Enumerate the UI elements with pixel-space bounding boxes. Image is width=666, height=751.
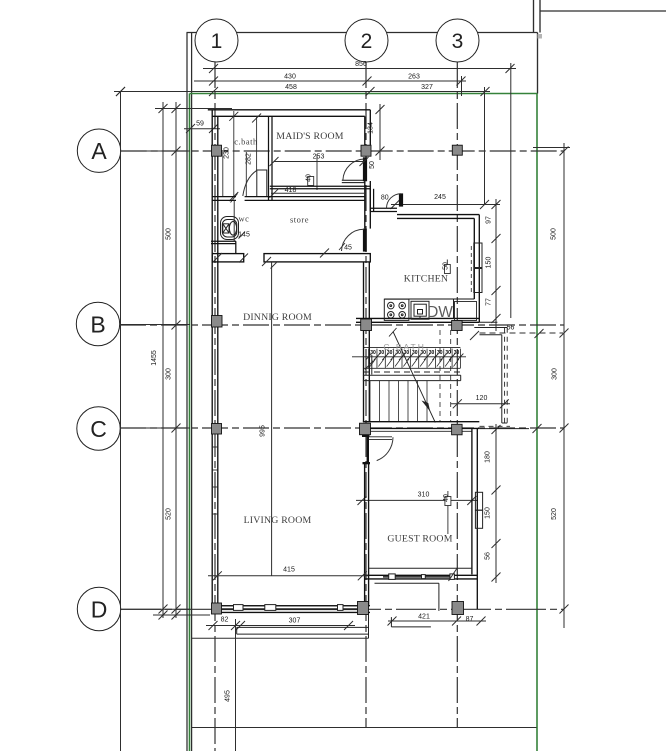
grid line 3 vertical bbox=[456, 62, 458, 728]
kitchen south wall bbox=[356, 318, 479, 322]
tick at green C bbox=[533, 424, 542, 433]
living west wall window ticks bbox=[212, 447, 218, 514]
toilet fixture bbox=[221, 217, 239, 240]
stair arrow head bbox=[422, 401, 431, 412]
svg-text:310: 310 bbox=[418, 492, 430, 499]
stove bbox=[384, 299, 409, 320]
right inner chain 97/150/77 bbox=[492, 199, 501, 331]
svg-text:495: 495 bbox=[225, 690, 232, 702]
extension line from 485 down to kitchen bbox=[484, 87, 486, 205]
svg-text:307: 307 bbox=[289, 618, 301, 625]
svg-text:LIVING ROOM: LIVING ROOM bbox=[244, 515, 312, 526]
right outer chain 500/300/520 bbox=[533, 143, 570, 628]
kitchen east window bbox=[474, 243, 482, 293]
grid line B horizontal bbox=[120, 324, 564, 326]
svg-text:MAID'S ROOM: MAID'S ROOM bbox=[276, 131, 343, 142]
grid bubble D bbox=[77, 587, 120, 630]
store door tick bbox=[339, 243, 345, 250]
maid's room door arc bbox=[343, 159, 365, 180]
extension line from 510 down bbox=[510, 63, 512, 318]
svg-text:458: 458 bbox=[285, 84, 297, 91]
guest south window notches bbox=[389, 574, 455, 580]
svg-text:97: 97 bbox=[486, 216, 493, 224]
svg-text:40: 40 bbox=[306, 174, 313, 182]
living south window band bbox=[222, 606, 357, 609]
guest room right chain 180/150/56 bbox=[492, 424, 501, 583]
svg-text:245: 245 bbox=[434, 194, 446, 201]
kitchen window tag arrow bbox=[446, 260, 448, 265]
column A3 bbox=[452, 145, 462, 155]
guest east window bbox=[475, 492, 482, 528]
svg-text:80: 80 bbox=[381, 194, 389, 201]
kitchen north wall bbox=[397, 215, 479, 219]
extension line from 461 bbox=[461, 76, 463, 96]
maid's room door leaf bbox=[363, 157, 367, 181]
guest door jamb caps bbox=[362, 435, 370, 437]
column B1 bbox=[212, 316, 223, 328]
stair newel line bbox=[371, 355, 373, 375]
property boundary double line west bbox=[187, 33, 192, 751]
dim 230 c.bath bbox=[222, 152, 224, 196]
svg-text:995: 995 bbox=[259, 425, 266, 437]
north exterior wall maid's room bbox=[208, 110, 370, 145]
maid's room east wall upper bbox=[365, 181, 371, 229]
svg-text:77: 77 bbox=[486, 298, 493, 306]
small gray mark below frame bbox=[538, 34, 543, 39]
svg-text:282: 282 bbox=[246, 153, 253, 165]
c.bath door jamb line bbox=[252, 114, 261, 171]
tick on x120 line top bbox=[116, 87, 125, 96]
kitchen east wall bbox=[474, 215, 479, 323]
stair direction line with arrow bbox=[389, 328, 435, 423]
store east wall with door leaf bbox=[363, 229, 367, 252]
top dimension row 3 (458/327) bbox=[114, 87, 490, 96]
svg-text:c.bath: c.bath bbox=[234, 137, 258, 147]
svg-text:263: 263 bbox=[408, 74, 420, 81]
bottom chain terminator line left bbox=[153, 614, 210, 616]
kitchen right counter inner rect bbox=[455, 302, 477, 321]
column A1 bbox=[212, 145, 222, 156]
guest room door arc bbox=[377, 437, 393, 460]
stair lower flight treads bbox=[370, 381, 427, 422]
svg-text:1455: 1455 bbox=[151, 350, 158, 366]
svg-text:wc: wc bbox=[239, 214, 250, 224]
green plot rectangle bbox=[190, 94, 538, 751]
svg-text:300: 300 bbox=[166, 368, 173, 380]
oven bbox=[411, 301, 429, 319]
grid bubble 1 bbox=[195, 19, 238, 62]
dim 310 guest bbox=[356, 496, 478, 505]
column B3 bbox=[452, 321, 463, 331]
stair upper flight hatch marks bbox=[370, 359, 459, 367]
svg-text:45: 45 bbox=[344, 245, 352, 252]
bottom site line y727 bbox=[192, 727, 537, 729]
svg-text:120: 120 bbox=[476, 395, 488, 402]
dim 245 kitchen top bbox=[391, 200, 501, 209]
top chain terminator line left bbox=[155, 108, 232, 110]
svg-text:82: 82 bbox=[221, 617, 229, 624]
svg-text:421: 421 bbox=[418, 614, 430, 621]
wall between c.bath and maid's room bbox=[269, 116, 273, 200]
svg-text:180: 180 bbox=[485, 451, 492, 463]
grid bubble B bbox=[76, 302, 119, 345]
wc door tick bbox=[239, 232, 246, 239]
svg-text:150: 150 bbox=[485, 507, 492, 519]
property boundary north line bbox=[187, 32, 538, 34]
left dimension chain segments 500/300/520 bbox=[159, 102, 181, 620]
dim 282 c.bath bbox=[245, 152, 247, 196]
hall east strip dashed bbox=[480, 328, 511, 427]
maid's room south wall bbox=[270, 186, 371, 189]
svg-text:50: 50 bbox=[369, 161, 376, 169]
kitchen door leaf 80 bbox=[399, 193, 403, 206]
dim 59 top left bbox=[184, 124, 220, 133]
column C1 bbox=[212, 424, 222, 435]
store door arc bbox=[342, 229, 365, 251]
top dimension row 2 (430/263) bbox=[194, 77, 466, 86]
c.bath door tick bbox=[231, 194, 238, 203]
c.bath door arc bbox=[243, 171, 257, 196]
guest room door header lines bbox=[369, 437, 393, 440]
bottom dim 82/307 bbox=[206, 621, 355, 630]
long vertical reference line at x=120 bbox=[120, 92, 122, 751]
title frame corner top-right bbox=[534, 0, 666, 94]
svg-text:134: 134 bbox=[368, 122, 375, 134]
dim 253 maid bbox=[270, 157, 369, 166]
svg-text:30: 30 bbox=[429, 350, 435, 356]
svg-text:415: 415 bbox=[283, 567, 295, 574]
svg-text:2: 2 bbox=[361, 30, 373, 53]
porch rectangle below living bbox=[237, 612, 369, 638]
grid line 1 vertical bbox=[214, 62, 216, 751]
svg-text:A: A bbox=[91, 138, 107, 164]
svg-text:150: 150 bbox=[486, 257, 493, 269]
grid A stub from bubble bbox=[121, 150, 190, 152]
grid line D horizontal bbox=[121, 608, 564, 610]
stair tread labels 30 row bbox=[370, 350, 459, 356]
svg-text:3: 3 bbox=[452, 30, 464, 53]
guest south window band bbox=[369, 568, 472, 577]
svg-text:KITCHEN: KITCHEN bbox=[404, 274, 448, 285]
bottom site line y638 bbox=[192, 637, 369, 639]
hall east strip lines bbox=[474, 328, 507, 424]
svg-text:430: 430 bbox=[284, 74, 296, 81]
svg-text:30: 30 bbox=[454, 350, 460, 356]
counter divider right of DW bbox=[453, 299, 455, 318]
dim 120 hall bbox=[451, 399, 510, 408]
svg-text:59: 59 bbox=[196, 121, 204, 128]
maid door sill bbox=[342, 180, 366, 182]
dinning room interior dim line 995 bbox=[271, 262, 273, 576]
svg-text:856: 856 bbox=[355, 61, 367, 68]
svg-text:C.BATH: C.BATH bbox=[383, 342, 426, 352]
west exterior wall bbox=[212, 110, 218, 609]
svg-text:D: D bbox=[91, 597, 108, 623]
svg-text:40: 40 bbox=[443, 494, 450, 502]
stair landing band bbox=[363, 375, 461, 380]
dim 134 vertical near grid2 bbox=[376, 104, 385, 160]
guest room door leaf bbox=[367, 437, 369, 463]
guest room west wall upper stub bbox=[365, 428, 369, 437]
svg-text:30: 30 bbox=[370, 350, 376, 356]
wc north wall bbox=[212, 197, 365, 201]
dim 418 bbox=[270, 189, 366, 198]
stair upper flight treads bbox=[364, 349, 460, 369]
kitchen wall lower line extension bbox=[479, 321, 497, 323]
stair mid dashed line bbox=[364, 371, 460, 373]
stair hall west wall bbox=[364, 262, 370, 422]
svg-text:50: 50 bbox=[442, 262, 449, 270]
svg-text:520: 520 bbox=[551, 508, 558, 520]
svg-text:C: C bbox=[90, 416, 107, 442]
grid C wall guest north bbox=[363, 422, 479, 429]
column D2 bbox=[358, 602, 369, 615]
wc partition line bbox=[233, 200, 235, 241]
tick on B wall right end bbox=[470, 331, 479, 340]
window tag 40 maid bbox=[308, 154, 317, 190]
svg-text:418: 418 bbox=[285, 187, 297, 194]
guest room south wall bbox=[365, 575, 478, 579]
grid B stub from bubble bbox=[120, 324, 190, 326]
column B2 bbox=[361, 319, 372, 331]
grid C stub from bubble bbox=[120, 427, 190, 429]
thick north wall of dinning room east part bbox=[264, 254, 370, 262]
corridor west wall (store to kitchen) bbox=[370, 189, 397, 212]
step right of porch bbox=[391, 617, 431, 627]
grid bubble C bbox=[77, 407, 120, 450]
tick near green on y333 bbox=[535, 329, 544, 338]
column C3 bbox=[452, 424, 463, 435]
dim 495 vertical bottom bbox=[231, 619, 240, 751]
guest window pointer 40 bbox=[445, 491, 451, 534]
thick north wall of dinning room west part bbox=[212, 254, 244, 262]
stair dim tick bbox=[365, 361, 374, 370]
svg-text:253: 253 bbox=[313, 154, 325, 161]
living south window notches bbox=[234, 605, 344, 611]
dim 415 living bbox=[208, 571, 368, 580]
svg-text:327: 327 bbox=[421, 84, 433, 91]
guest ceiling beam line bbox=[369, 430, 472, 432]
svg-text:56: 56 bbox=[507, 325, 515, 332]
c.bath interior dim line 230 bbox=[229, 111, 238, 201]
line below C wall right bbox=[480, 428, 530, 430]
bottom dim 421/87 bbox=[388, 617, 487, 626]
window tag 50 kitchen bbox=[445, 265, 451, 274]
svg-text:store: store bbox=[290, 215, 309, 225]
living room south wall bbox=[212, 606, 370, 613]
grid bubble 2 bbox=[345, 19, 388, 62]
c.bath door leaf rect bbox=[257, 170, 267, 197]
svg-text:DINNIG ROOM: DINNIG ROOM bbox=[243, 312, 312, 323]
grid bubble 3 bbox=[436, 19, 479, 62]
svg-text:B: B bbox=[90, 312, 105, 338]
tick guest south bbox=[449, 568, 458, 582]
guest room east wall bbox=[472, 428, 477, 609]
guest room west wall bbox=[365, 463, 369, 609]
svg-text:300: 300 bbox=[552, 368, 559, 380]
svg-text:520: 520 bbox=[166, 508, 173, 520]
svg-text:230: 230 bbox=[224, 147, 231, 159]
svg-text:56: 56 bbox=[485, 552, 492, 560]
column D3 bbox=[452, 602, 464, 615]
left dimension chain overall 1455 bbox=[159, 102, 168, 618]
grid line C horizontal bbox=[120, 427, 564, 429]
wc south wall bbox=[211, 241, 236, 253]
grid bubble A bbox=[77, 129, 120, 172]
column C2 bbox=[360, 423, 371, 435]
svg-text:500: 500 bbox=[551, 228, 558, 240]
svg-text:GUEST ROOM: GUEST ROOM bbox=[387, 534, 452, 545]
kitchen counter top line bbox=[384, 298, 474, 300]
stair tread dim line with ticks bbox=[352, 354, 466, 360]
door gap ticks dinning entry bbox=[213, 249, 329, 267]
svg-text:87: 87 bbox=[466, 616, 474, 623]
top dimension row 1 (856) bbox=[203, 64, 516, 73]
kitchen counter dashed edge bbox=[470, 246, 472, 295]
grid line A horizontal bbox=[121, 150, 564, 152]
stair top separator line bbox=[364, 347, 460, 349]
dashed line y333 to right chain bbox=[480, 332, 564, 334]
guest terrace step bbox=[375, 583, 439, 611]
column D1 bbox=[212, 603, 222, 614]
kitchen door arc bbox=[387, 194, 402, 209]
column A2 bbox=[361, 145, 371, 156]
stair dashed upper outline bbox=[440, 330, 451, 422]
grid D stub from bubble bbox=[121, 608, 190, 610]
grid line 2 vertical bbox=[365, 62, 367, 728]
svg-text:DW: DW bbox=[427, 304, 453, 321]
svg-text:1: 1 bbox=[211, 30, 223, 53]
svg-text:500: 500 bbox=[166, 228, 173, 240]
